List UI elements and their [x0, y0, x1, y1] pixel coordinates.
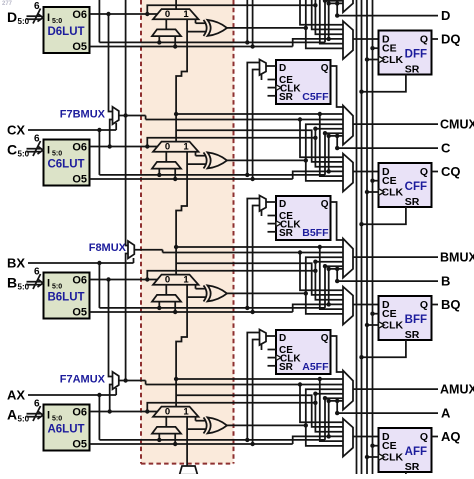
svg-text:D: D [279, 63, 286, 74]
svg-text:BX: BX [7, 256, 25, 271]
flip-flop BFF [379, 296, 432, 340]
DI select mux (hat) B [152, 295, 181, 302]
carry mux MUXCY B [153, 275, 199, 285]
svg-text:CLK: CLK [382, 54, 404, 66]
node CX junction [97, 128, 101, 132]
A5FF D-input mux [260, 330, 267, 346]
wire F7AMUX output [119, 380, 146, 382]
SR rail to flip-flops [361, 0, 363, 474]
wire wide-mux output line to muxes row C [146, 119, 343, 121]
node O6 B junction at carry-column feed [145, 277, 149, 281]
staircase junction dots row A [313, 392, 317, 396]
hat C right leg to O5 rail [174, 169, 176, 179]
CFF input mux [343, 154, 353, 192]
svg-text:CFF: CFF [405, 181, 427, 193]
svg-text:SR: SR [405, 329, 420, 341]
svg-text:O5: O5 [72, 174, 87, 186]
svg-text:I: I [47, 410, 50, 422]
flip-flop CFF [379, 163, 432, 207]
A5FF D-mux output wire [266, 335, 276, 337]
wire wide-mux output line to muxes row D [300, 0, 343, 25]
wire O5 A rail [90, 443, 293, 445]
wire BX down to bypass rail [98, 263, 100, 308]
wire XOR output D [227, 27, 306, 29]
wire AQ output [432, 436, 439, 438]
wire XOR D riser to upper mux [306, 0, 343, 28]
XORCY D top input wire from O6 [195, 19, 197, 23]
svg-text:1: 1 [183, 9, 189, 20]
C5FF D-mux top input from bypass rail [247, 63, 259, 175]
flip-flop B5FF [276, 196, 331, 240]
XORCY C bottom input wire from carry-in [187, 163, 206, 165]
svg-text:I: I [47, 12, 50, 24]
svg-text:B5FF: B5FF [302, 227, 329, 239]
wire carry tap to FF mux row B [176, 263, 343, 295]
wire CMUX output [353, 123, 438, 125]
svg-text:DFF: DFF [405, 49, 427, 61]
AFF input mux [343, 419, 353, 457]
svg-text:SR: SR [279, 228, 294, 239]
carry segment B to A [176, 285, 187, 407]
node O6 A junction at F7 feed [108, 409, 112, 413]
C5FF D-mux bottom input from O5 rail [253, 70, 260, 180]
svg-text:SR: SR [405, 461, 420, 473]
carry XOR gate XORCY A [204, 417, 207, 433]
svg-text:D6LUT: D6LUT [47, 26, 84, 38]
wire wide-mux output line to muxes row B [163, 252, 343, 254]
svg-text:5:0: 5:0 [52, 284, 62, 291]
A6LUT [44, 405, 90, 451]
wire XOR A riser to upper mux [306, 389, 343, 425]
vertical feed to cropped D-row mux [125, 0, 127, 116]
carry mux MUXCY C [153, 142, 199, 152]
wire FF-mux A to AFF D input [353, 436, 379, 438]
B5FF CLK stub [268, 223, 277, 225]
flip-flop AFF [379, 428, 432, 472]
svg-text:5:0: 5:0 [52, 151, 62, 158]
wire D output tap vertical [336, 3, 338, 15]
svg-text:CE: CE [382, 440, 397, 452]
carry mux MUXCY A [153, 407, 199, 417]
B6LUT [44, 273, 90, 319]
svg-text:CQ: CQ [441, 164, 461, 179]
wire O5 B rail [90, 311, 293, 313]
hat B left leg to bypass rail [158, 302, 160, 308]
svg-text:O5: O5 [72, 439, 87, 451]
C5FF clock triangle [276, 85, 281, 91]
wire O5 C step into FF mux [293, 171, 343, 179]
A5FF CE stub [268, 349, 277, 351]
wire carry-out branch C to output mux [176, 113, 343, 115]
svg-text:0: 0 [165, 9, 170, 20]
staircase junction dots row B [313, 260, 317, 264]
wire F8MUX lower input from F7AMUX output [126, 254, 128, 381]
B5FF D-mux bottom input from O5 rail [253, 206, 260, 313]
svg-text:O6: O6 [72, 142, 87, 154]
XORCY A bottom input wire from carry-in [187, 428, 206, 430]
wire FF-mux D to DFF D input [353, 38, 379, 40]
carry XOR gate XORCY C [204, 152, 207, 168]
wire O6 B riser to upper mux input [315, 262, 343, 271]
hat C left leg to bypass rail [158, 169, 160, 175]
vertical rail near flip-flops [356, 0, 358, 474]
node O6 C junction at carry-column feed [145, 144, 149, 148]
wire C output line [337, 147, 438, 149]
CFF clock edge triangle [379, 189, 385, 196]
wire XOR B riser to upper mux [306, 257, 343, 293]
DI select mux (hat) C [152, 162, 181, 169]
XORCY A top input wire from O6 [195, 417, 197, 421]
wire O5 D step into FF mux [293, 39, 343, 47]
wire D tap feed from O5 step [327, 37, 331, 41]
cropped D5FF feed verticals [246, 0, 248, 42]
carry column dashed border right [233, 0, 235, 464]
wire O6 C dropper to FF mux input [315, 138, 343, 167]
svg-text:D: D [279, 333, 286, 344]
output mux CMUX selector [343, 106, 353, 145]
CE rail to flip-flops [372, 0, 374, 474]
node O6 C junction at F7 feed [108, 144, 112, 148]
wire F7BMUX lower input from C O6 [110, 120, 113, 147]
svg-text:6: 6 [34, 1, 40, 12]
wire bypass rail B [99, 307, 325, 309]
svg-text:BFF: BFF [405, 314, 427, 326]
svg-text:F7AMUX: F7AMUX [60, 374, 106, 386]
AFF CLK stub [367, 456, 379, 458]
wire F7AMUX output jog [145, 381, 147, 385]
wire XOR B drop to FF mux [306, 293, 343, 314]
wire O6 D riser to upper mux input [315, 0, 343, 5]
hat A left leg to bypass rail [158, 434, 160, 440]
wire O6 A dropper to FF mux input [315, 403, 343, 432]
svg-text:6: 6 [34, 267, 40, 278]
wire XOR output B [227, 292, 306, 294]
wire F7BMUX output jog down to bus [145, 116, 147, 120]
AFF clock edge triangle [379, 454, 385, 461]
wire XOR A drop to FF mux [306, 425, 343, 446]
svg-text:O6: O6 [72, 9, 87, 21]
wire F8MUX output jog [162, 250, 164, 253]
svg-text:A6LUT: A6LUT [47, 424, 84, 436]
DFF CE stub [373, 47, 379, 49]
MUXCY A 0-input leg [165, 417, 167, 427]
svg-text:CX: CX [7, 123, 25, 138]
wire bypass rail D [99, 41, 325, 43]
wire XOR output C [227, 159, 306, 161]
wire AMUX output [353, 388, 438, 390]
wire F7AMUX lower input from A O6 [110, 385, 113, 412]
wire F7BMUX upper input from D O6 [109, 14, 113, 112]
wire O6 C to MUXCY select [90, 146, 159, 148]
svg-text:SR: SR [279, 92, 294, 103]
A5FF clock triangle [276, 355, 281, 361]
wide-function mux F7AMUX [113, 372, 119, 389]
A5FF CLK stub [268, 357, 277, 359]
wide-function mux F8MUX [128, 241, 134, 258]
wire AX down to bypass rail [98, 395, 100, 440]
flip-flop DFF [379, 31, 432, 75]
node BX junction [97, 261, 101, 265]
svg-text:Q: Q [321, 63, 329, 74]
wire A tap feed from O5 step [327, 434, 331, 438]
BFF CLK stub [367, 324, 379, 326]
A5FF SR stub [268, 365, 277, 367]
BFF CE stub [373, 313, 379, 315]
C5FF D-mux output wire [266, 65, 276, 67]
svg-text:O5: O5 [72, 41, 87, 53]
wire DQ output [432, 38, 439, 40]
wire O6 D route to output muxes [147, 5, 315, 14]
A5FF D-mux bottom input from O5 rail [253, 340, 260, 445]
wire O6 C riser to upper mux input [315, 129, 343, 138]
svg-text:BQ: BQ [441, 297, 461, 312]
wire C output tap vertical [336, 136, 338, 148]
wire F7AMUX select from AX [115, 388, 117, 395]
wire A output line [337, 412, 438, 414]
svg-text:D: D [279, 199, 286, 210]
wire A5FF Q to AMUX input [331, 336, 344, 372]
svg-text:O6: O6 [72, 407, 87, 419]
svg-text:B6LUT: B6LUT [47, 292, 84, 304]
wire O6 B to MUXCY select [90, 279, 159, 281]
BFF clock edge triangle [379, 322, 385, 329]
svg-text:Q: Q [420, 431, 428, 443]
svg-text:F7BMUX: F7BMUX [60, 109, 106, 121]
svg-text:1: 1 [183, 142, 189, 153]
wire carry branch C drop to FF mux [320, 114, 343, 176]
C5FF D-input mux [260, 60, 267, 76]
wire carry tap to FF mux row C [176, 130, 343, 162]
svg-text:6: 6 [34, 399, 40, 410]
carry column dashed border bottom [141, 463, 234, 465]
svg-text:CE: CE [382, 308, 397, 320]
wire O6 A riser to upper mux input [315, 394, 343, 403]
svg-text:CE: CE [382, 43, 397, 55]
node AX junction [97, 393, 101, 397]
CIN terminal (cropped) [180, 466, 198, 475]
flip-flop A5FF [276, 330, 331, 374]
svg-text:C6LUT: C6LUT [47, 159, 84, 171]
wire carry tap to FF mux row D (cropped) [312, 0, 343, 29]
hat D right leg to O5 rail [174, 36, 176, 46]
hat B right leg to O5 rail [174, 302, 176, 312]
svg-text:I: I [47, 145, 50, 157]
svg-text:5:0: 5:0 [52, 416, 62, 423]
svg-text:A: A [7, 407, 17, 423]
wire F7AMUX upper input from B O6 [109, 280, 113, 377]
wire bypass rail C [99, 174, 325, 176]
bypass DX vertical from cropped top [98, 0, 100, 42]
svg-text:SR: SR [405, 64, 420, 76]
wire carry tap to FF mux row A [176, 395, 343, 427]
hat A right leg to O5 rail [174, 434, 176, 444]
C5FF SR stub [268, 95, 277, 97]
svg-text:CLK: CLK [382, 187, 404, 199]
B5FF SR stub [268, 231, 277, 233]
wire CX down to bypass rail [98, 130, 100, 175]
wire A output tap vertical [336, 401, 338, 413]
svg-text:D: D [7, 9, 17, 25]
C6LUT [44, 140, 90, 186]
carry XOR gate XORCY B [204, 285, 207, 301]
carry-out to COUT (cropped top) [175, 0, 177, 9]
DI select mux (hat) D [152, 29, 181, 36]
node O6 A junction at carry-column feed [145, 409, 149, 413]
wire carry branch D drop to FF mux (cropped) [320, 0, 343, 44]
wire bypass rail A [99, 439, 325, 441]
MUXCY C 0-input leg [165, 152, 167, 162]
svg-text:O5: O5 [72, 307, 87, 319]
svg-text:CLK: CLK [382, 320, 404, 332]
wire C5FF Q to CMUX input [331, 66, 344, 107]
A5FF D-mux top input from bypass rail [247, 333, 259, 440]
svg-text:5:0: 5:0 [52, 18, 62, 25]
wire C tap feed from O5 step [327, 169, 331, 173]
wire F8MUX upper input from F7BMUX output [126, 116, 128, 246]
wire O6 A to MUXCY select [90, 411, 159, 413]
svg-text:Q: Q [420, 299, 428, 311]
carry segment C to B [176, 152, 187, 275]
wire XOR C drop to FF mux [306, 160, 343, 181]
wire F8MUX select from BX [133, 258, 135, 263]
wire O6 C route to output muxes [147, 138, 315, 147]
wire CQ output [432, 171, 439, 173]
wire F7BMUX select from CX [115, 123, 117, 130]
D6LUT [44, 7, 90, 53]
wire O5 A step into FF mux [293, 436, 343, 444]
hat D left leg to bypass rail [158, 36, 160, 42]
svg-text:277: 277 [2, 1, 13, 7]
svg-text:CLK: CLK [382, 452, 404, 464]
B5FF D-mux select stub [261, 210, 263, 216]
wire O5 C rail [90, 178, 293, 180]
B5FF D-input mux [260, 196, 267, 212]
XORCY D bottom input wire from carry-in [187, 31, 206, 33]
svg-text:AQ: AQ [441, 429, 461, 444]
carry XOR gate XORCY D [204, 20, 207, 36]
CFF CLK stub [367, 191, 379, 193]
wire B output tap vertical [336, 269, 338, 281]
CFF SR wire [362, 207, 406, 224]
wire carry branch B drop to FF mux [320, 247, 343, 309]
BFF input mux [343, 287, 353, 325]
svg-text:AFF: AFF [405, 446, 427, 458]
svg-text:Q: Q [420, 34, 428, 46]
DFF clock edge triangle [379, 56, 385, 63]
B5FF D-mux top input from bypass rail [247, 199, 259, 308]
svg-text:B: B [7, 275, 17, 291]
svg-text:CE: CE [382, 175, 397, 187]
svg-text:0: 0 [165, 407, 170, 418]
svg-text:C: C [7, 142, 17, 158]
B5FF CE stub [268, 215, 277, 217]
wire carry branch A drop to FF mux [320, 379, 343, 441]
MUXCY D 0-input leg [165, 19, 167, 29]
wire XOR output A [227, 424, 306, 426]
XORCY C top input wire from O6 [195, 152, 197, 156]
output mux AMUX selector [343, 371, 353, 410]
svg-text:1: 1 [183, 407, 189, 418]
carry column dashed border left [140, 0, 142, 464]
DFF input mux [343, 21, 353, 59]
wire carry-out branch A to output mux [176, 378, 343, 380]
svg-text:6: 6 [34, 134, 40, 145]
wire bypass A riser to upper mux [325, 398, 343, 440]
svg-text:1: 1 [183, 275, 189, 286]
A5FF D-mux select stub [261, 344, 263, 350]
wire XOR C riser to upper mux [306, 124, 343, 160]
svg-text:AX: AX [7, 388, 25, 403]
wire D output line [337, 15, 438, 17]
wire carry-out branch B to output mux [176, 246, 343, 248]
CFF CE stub [373, 180, 379, 182]
MUXCY B 0-input leg [165, 285, 167, 295]
wire AX from label [28, 394, 116, 396]
wire F8MUX output [134, 249, 162, 251]
svg-text:Q: Q [321, 199, 329, 210]
wire bypass C riser to upper mux [325, 133, 343, 175]
wire O6 D to MUXCY select [90, 13, 159, 15]
carry-in segment from CIN [186, 417, 188, 466]
AFF CE stub [373, 445, 379, 447]
svg-text:0: 0 [165, 275, 170, 286]
carry segment D to C [176, 19, 187, 141]
XORCY B bottom input wire from carry-in [187, 296, 206, 298]
wire B output line [337, 280, 438, 282]
DFF CLK stub [367, 59, 379, 61]
node O6 B junction at F7 feed [106, 277, 110, 281]
svg-text:C5FF: C5FF [302, 91, 329, 103]
svg-text:DQ: DQ [441, 32, 461, 47]
wire wide-mux output line to muxes row A [146, 384, 343, 386]
svg-text:O6: O6 [72, 275, 87, 287]
AFF SR wire [362, 472, 406, 479]
svg-text:A: A [441, 406, 451, 421]
B5FF D-mux output wire [266, 201, 276, 203]
output mux DMUX selector [343, 0, 353, 12]
wire BX from label [28, 262, 134, 264]
svg-text:CMUX: CMUX [440, 118, 474, 132]
staircase junction dots row C [313, 127, 317, 131]
svg-text:F8MUX: F8MUX [89, 242, 127, 254]
svg-text:B: B [441, 274, 450, 289]
output mux BMUX selector [343, 239, 353, 278]
wire B5FF Q to BMUX input [331, 202, 344, 240]
svg-text:I: I [47, 278, 50, 290]
svg-text:SR: SR [405, 196, 420, 208]
C5FF D-mux select stub [261, 74, 263, 80]
wire CX from label [28, 129, 116, 131]
XORCY B top input wire from O6 [195, 285, 197, 289]
C5FF CLK stub [268, 87, 277, 89]
svg-text:0: 0 [165, 142, 170, 153]
svg-text:AMUX: AMUX [440, 383, 474, 397]
wire O6 D dropper to FF mux input [315, 5, 343, 34]
wire B tap feed from O5 step [327, 302, 331, 306]
wire O5 D rail [90, 46, 293, 48]
wire O6 B route to output muxes [147, 271, 315, 280]
wire bypass D riser to upper mux [325, 1, 343, 43]
CLK rail to flip-flops [366, 0, 368, 474]
B5FF clock triangle [276, 221, 281, 227]
svg-text:C: C [441, 141, 451, 156]
wire BQ output [432, 304, 439, 306]
wire FF-mux B to BFF D input [353, 304, 379, 306]
node O6 D junction at carry-column feed [145, 12, 149, 16]
wire F7BMUX output [119, 115, 146, 117]
DFF SR wire [362, 75, 406, 92]
C5FF CE stub [268, 79, 277, 81]
